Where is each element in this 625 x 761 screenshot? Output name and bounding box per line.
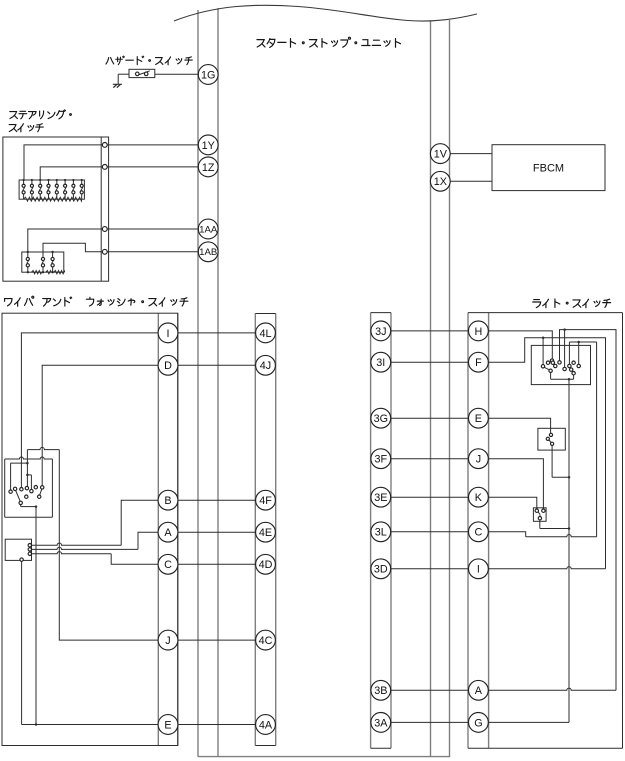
svg-text:1AA: 1AA <box>199 224 218 235</box>
svg-text:1X: 1X <box>434 176 447 188</box>
svg-text:3A: 3A <box>374 717 388 729</box>
svg-text:FBCM: FBCM <box>533 162 564 174</box>
svg-text:3I: 3I <box>376 357 385 369</box>
svg-text:A: A <box>475 685 483 697</box>
svg-text:J: J <box>165 635 170 647</box>
svg-text:H: H <box>474 326 482 338</box>
svg-text:1G: 1G <box>201 69 215 81</box>
svg-text:K: K <box>475 492 483 504</box>
svg-text:3E: 3E <box>374 492 387 504</box>
svg-text:1Z: 1Z <box>202 162 215 174</box>
svg-text:F: F <box>475 357 482 369</box>
svg-text:4L: 4L <box>259 328 271 340</box>
svg-text:G: G <box>474 717 482 729</box>
svg-text:I: I <box>167 328 170 340</box>
svg-text:4D: 4D <box>259 559 273 571</box>
svg-text:3L: 3L <box>375 527 387 539</box>
svg-text:3B: 3B <box>374 685 387 697</box>
svg-text:E: E <box>475 413 482 425</box>
svg-text:3D: 3D <box>374 564 388 576</box>
svg-text:A: A <box>164 527 172 539</box>
svg-text:J: J <box>476 454 481 466</box>
svg-text:C: C <box>474 527 482 539</box>
svg-text:3F: 3F <box>374 454 387 466</box>
svg-text:1Y: 1Y <box>202 140 215 152</box>
svg-text:I: I <box>477 564 480 576</box>
svg-text:4E: 4E <box>259 527 272 539</box>
svg-text:3G: 3G <box>374 413 388 425</box>
svg-text:E: E <box>164 719 171 731</box>
svg-text:4C: 4C <box>259 635 273 647</box>
svg-text:4A: 4A <box>259 719 273 731</box>
svg-text:3J: 3J <box>375 326 386 338</box>
svg-text:C: C <box>164 559 172 571</box>
svg-text:4F: 4F <box>259 495 272 507</box>
svg-text:D: D <box>164 360 172 372</box>
svg-text:1AB: 1AB <box>199 247 217 258</box>
svg-text:1V: 1V <box>434 149 448 161</box>
svg-text:4J: 4J <box>260 360 271 372</box>
svg-text:B: B <box>164 495 171 507</box>
